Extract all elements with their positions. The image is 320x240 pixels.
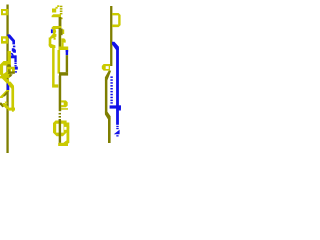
wire: left yellow bar long [52,46,55,85]
wire: right descender olive [66,55,68,72]
wire: blue horizontal bar [8,55,16,58]
pad ring B with hole [102,64,110,71]
pad blue square [15,67,18,70]
wire: olive jog diagonal [105,71,111,81]
wire: olive pad blob [60,29,63,36]
wire: blue vertical segment [14,55,16,62]
wire: olive diagonal resume [0,103,4,108]
pad small yellow blob in S [54,38,56,40]
wire: yellow V right branch [2,76,9,83]
wire: yellow bottom bar [8,108,15,111]
wire: blue diagonal from trace [112,42,119,50]
ratsnest dash under arrow [116,135,118,136]
wire: yellow right vertical bar [11,88,14,109]
wire: olive diagonal under band [3,91,9,96]
pad ring C oval with hole [0,61,11,78]
wire: olive diagonal inside ring C [7,64,11,69]
wire: bottom connecting bar [58,143,68,146]
wire: olive blob [7,69,10,73]
wire: yellow 2-shape blob [61,38,65,42]
ratsnest dash e [15,71,17,72]
wire: right vertical trace upper [110,6,112,66]
ratsnest dash c [14,63,16,64]
wire: J vertical bar [67,123,70,144]
pad big ring octagon with hole [53,121,67,137]
pad stub yellow dash [8,51,11,53]
wire: spur band to J bar [63,123,69,129]
ratsnest blue dash column [110,76,112,103]
wire: blue segment on trace [7,84,10,91]
ratsnest dashes top [60,6,63,20]
wire: yellow diagonal to right bar [8,82,14,89]
ratsnest dash diagonal b [10,53,14,56]
pad ring D with hole [7,67,15,72]
ratsnest dash diagonal a [12,48,16,53]
wire: S-hook left vertical [49,38,52,45]
wire: J foot curve [64,141,69,145]
wire: olive corner horizontal [59,72,68,75]
ratsnest blue dash under bar [66,50,69,52]
wire: blue T horizontal bar [110,105,121,108]
wire: yellow diagonal to line [3,103,9,109]
pad D-shape with hole [112,13,121,27]
wire: olive vertical upper [59,17,62,28]
wire: olive diagonal jog right [105,112,111,120]
pad bottom strip [61,108,68,110]
pad bright bump right of olive blob [63,29,65,34]
wire: blue bulge [116,105,121,110]
wire: olive line through ring [59,120,61,143]
ratsnest arrow [52,9,56,13]
ratsnest arrow tail [56,5,60,8]
wire: yellow 2-shape bottom bar [59,47,69,51]
wire: right vertical trace middle [105,80,108,113]
wire: blue diagonal segment [7,34,15,44]
wire: olive bar under ring D [8,71,15,73]
wire: olive wedge below ring D [9,74,13,77]
pad P-shape with hole [61,100,68,107]
wire: center bright yellow bar [58,50,61,74]
wire: yellow vertical bar [8,52,11,66]
wire: right vertical trace lower [108,118,111,143]
wire: right descender blue segment [66,50,68,55]
wire: yellow band down-left [0,72,9,79]
wire: blue vertical long [116,48,119,125]
wire: left bar foot [52,84,58,87]
pad small blob [12,110,14,112]
wire: olive center line lower [59,76,62,112]
wire: olive vertical center upper [59,28,62,50]
pad P1 top-left with hole [1,9,8,15]
ratsnest olive dashes mid [59,113,61,121]
wire: yellow long band down-left [0,90,9,98]
wire: yellow below blue [7,90,10,92]
wire: S-hook bottom curve [49,44,56,48]
wire: left vertical trace [6,5,8,154]
ratsnest arrowhead [114,130,120,135]
via V1 with hole [1,36,8,43]
wire: blue tick [51,29,53,33]
white notch in ring right side [64,127,66,130]
wire: S-hook top diagonal [50,34,57,39]
ratsnest blue dashes bottom [116,126,118,129]
ratsnest dash [13,46,15,48]
wire: yellow vertical short [6,80,9,85]
wire: yellow bar 1 [52,14,61,17]
wire: yellow curve into S-hook [53,29,56,36]
wire: yellow bar 2 [52,26,62,29]
wire: yellow 2-shape middle [61,43,63,47]
wire: yellow dash mid [5,102,8,104]
ratsnest dash d [14,65,16,66]
